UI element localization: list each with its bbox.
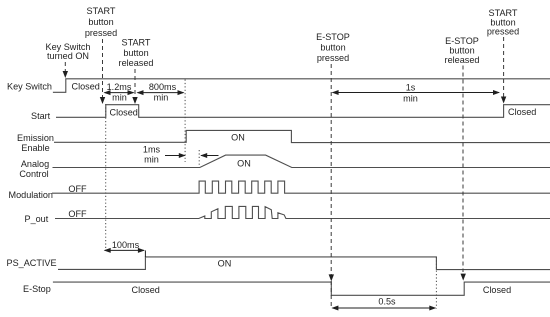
svg-text:1ms: 1ms xyxy=(143,145,161,155)
svg-text:Enable: Enable xyxy=(21,143,49,153)
svg-text:800ms: 800ms xyxy=(149,82,177,92)
svg-text:START: START xyxy=(489,8,518,18)
svg-text:100ms: 100ms xyxy=(112,240,140,250)
svg-text:START: START xyxy=(122,38,151,48)
svg-text:Modulation: Modulation xyxy=(9,190,54,200)
svg-text:min: min xyxy=(403,94,418,104)
svg-text:Closed: Closed xyxy=(508,107,536,117)
svg-text:ON: ON xyxy=(237,159,251,169)
svg-text:E-Stop: E-Stop xyxy=(23,284,51,294)
svg-text:released: released xyxy=(445,55,480,65)
svg-text:Closed: Closed xyxy=(72,82,100,92)
svg-text:OFF: OFF xyxy=(68,184,87,194)
svg-text:button: button xyxy=(320,43,345,53)
svg-text:min: min xyxy=(144,155,159,165)
svg-text:PS_ACTIVE: PS_ACTIVE xyxy=(7,258,57,268)
svg-text:P_out: P_out xyxy=(25,214,49,224)
svg-text:Control: Control xyxy=(19,169,48,179)
svg-text:E-STOP: E-STOP xyxy=(445,36,479,46)
svg-text:Analog: Analog xyxy=(21,159,49,169)
svg-text:0.5s: 0.5s xyxy=(378,297,396,307)
svg-text:ON: ON xyxy=(218,259,232,269)
svg-text:pressed: pressed xyxy=(317,53,349,63)
svg-text:Closed: Closed xyxy=(110,107,138,117)
svg-text:Emission: Emission xyxy=(17,133,54,143)
svg-text:turned ON: turned ON xyxy=(47,51,89,61)
svg-text:pressed: pressed xyxy=(487,26,519,36)
svg-text:E-STOP: E-STOP xyxy=(316,32,350,42)
svg-text:released: released xyxy=(119,58,154,68)
svg-text:min: min xyxy=(112,93,127,103)
svg-text:Key Switch: Key Switch xyxy=(7,82,52,92)
svg-text:pressed: pressed xyxy=(85,28,117,38)
svg-text:button: button xyxy=(88,17,113,27)
svg-text:ON: ON xyxy=(231,133,245,143)
svg-text:Closed: Closed xyxy=(483,285,511,295)
svg-text:1s: 1s xyxy=(406,83,416,93)
svg-text:Start: Start xyxy=(31,111,51,121)
svg-text:OFF: OFF xyxy=(68,209,87,219)
svg-text:button: button xyxy=(123,48,148,58)
svg-text:START: START xyxy=(87,6,116,16)
svg-text:min: min xyxy=(154,93,169,103)
svg-text:Closed: Closed xyxy=(132,285,160,295)
